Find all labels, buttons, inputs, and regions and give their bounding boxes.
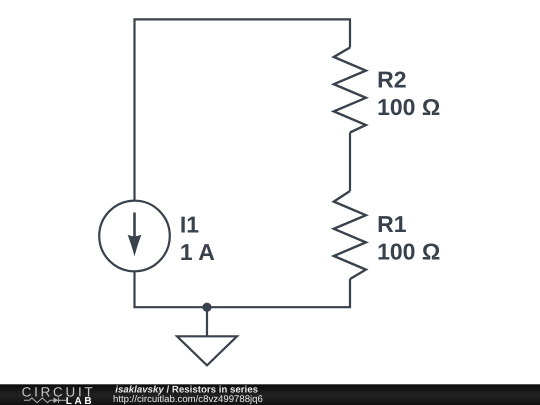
svg-text:http://circuitlab.com/c8vz4997: http://circuitlab.com/c8vz499788jq6: [113, 394, 263, 405]
svg-text:R2: R2: [377, 66, 406, 92]
wire: top rail from left branch up, across, down to R2: [135, 19, 351, 200]
svg-text:LAB: LAB: [66, 396, 95, 405]
svg-text:R1: R1: [377, 211, 407, 237]
current source I1 circle: [99, 201, 170, 272]
wire: R1 down to bottom rail and across to current source: [135, 271, 351, 307]
svg-text:1 A: 1 A: [180, 239, 215, 265]
ground: [177, 307, 237, 365]
junction node: [202, 303, 211, 312]
svg-text:100 Ω: 100 Ω: [377, 239, 440, 265]
wire: between R2 and R1: [349, 133, 351, 192]
svg-text:100 Ω: 100 Ω: [377, 94, 440, 120]
resistor R1: [334, 191, 366, 279]
CircuitLab logo diode triangle: [53, 398, 58, 404]
current source I1 arrow: [128, 213, 142, 257]
svg-text:I1: I1: [180, 212, 199, 238]
CircuitLab logo wire with resistor and diode: [24, 398, 66, 404]
resistor R2: [334, 48, 366, 133]
